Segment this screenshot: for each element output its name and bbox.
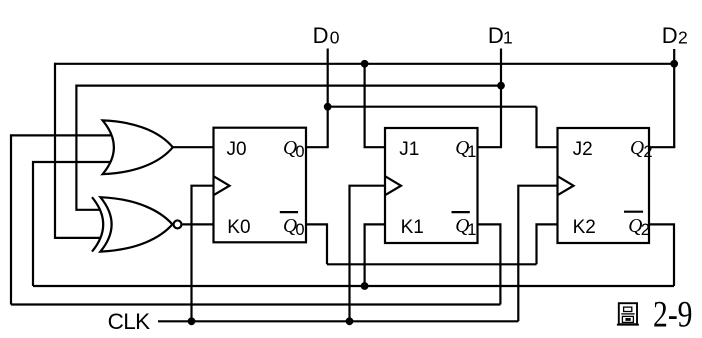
label Q2-bar pin: [624, 212, 650, 239]
label Q1 pin: [455, 138, 476, 161]
wire CLK horizontal: [158, 320, 518, 322]
svg-text:K2: K2: [573, 217, 596, 238]
flip-flop U1 box: [385, 128, 478, 243]
wire CLK to FF2 clock: [518, 186, 557, 322]
junction dot W5/K1: [361, 282, 369, 290]
wire Q1 pin to D1 node: [478, 146, 503, 148]
svg-text:J2: J2: [573, 139, 593, 160]
svg-text:2: 2: [643, 143, 652, 161]
svg-text:D: D: [313, 23, 329, 48]
junction dot CLK/FF1: [346, 317, 354, 325]
svg-text:2: 2: [641, 221, 650, 239]
wire OR gate lower input feed: [33, 162, 114, 286]
label Q0-bar pin: [280, 212, 305, 239]
wire net D1 left drop to XNOR upper input: [76, 85, 101, 210]
svg-text:1: 1: [467, 221, 476, 239]
wire D0 label stub down to Q0: [327, 49, 329, 148]
label Q1-bar pin: [452, 212, 477, 239]
wire K1 feed riser from W5: [365, 224, 385, 286]
wire D1 label stub down to Q1: [500, 49, 502, 148]
junction dot W3/D0: [324, 103, 332, 111]
svg-text:0: 0: [295, 143, 304, 161]
svg-text:0: 0: [330, 28, 340, 48]
label Q2 pin: [630, 138, 653, 161]
svg-text:0: 0: [295, 221, 304, 239]
svg-text:1: 1: [467, 143, 476, 161]
label D0: [313, 23, 340, 48]
junction dot W1/D2: [670, 60, 678, 68]
svg-text:K1: K1: [401, 217, 424, 238]
label Q0 pin: [283, 138, 305, 161]
flip-flop U0 box: [214, 128, 307, 243]
svg-text:2: 2: [678, 28, 688, 48]
svg-text:CLK: CLK: [108, 309, 151, 334]
wire Q0 pin to D0 node: [306, 146, 329, 148]
xnor-gate U5: [92, 197, 181, 251]
label figure caption 圖 glyph: [617, 303, 639, 325]
svg-text:J0: J0: [227, 139, 247, 160]
wire Q-bar-0 to K2 horizontal (W4): [327, 263, 537, 265]
wire net D2 left drop to XNOR lower input: [55, 63, 101, 238]
wire D2 label stub down to Q2: [673, 49, 675, 147]
flip-flop U2 box: [558, 128, 650, 243]
wire J1 feed from W1: [365, 64, 385, 147]
svg-text:1: 1: [503, 28, 513, 48]
wire K2 feed riser: [537, 224, 558, 264]
wire CLK to FF1 clock: [350, 186, 386, 322]
junction dot W2/D1: [497, 82, 505, 90]
junction dot CLK/FF0: [188, 317, 196, 325]
wire net D0 horizontal (W3): [328, 106, 537, 108]
junction dot W1/J1: [361, 60, 369, 68]
svg-text:D: D: [662, 23, 678, 48]
wire Q2 pin to D2 node: [649, 146, 675, 148]
wire CLK to FF0 clock: [192, 186, 214, 322]
wire J2 feed from W3: [537, 107, 558, 148]
or-gate U4: [103, 120, 173, 174]
wire Q-bar-1 return horizontal (W6): [11, 303, 500, 305]
svg-text:K0: K0: [227, 217, 250, 238]
wire Q-bar-2 return horizontal (W5): [33, 285, 674, 287]
svg-text:D: D: [488, 23, 504, 48]
wire net D1 horizontal (W2): [75, 84, 501, 86]
wire Q-bar-1 out and down: [478, 224, 501, 304]
wire Q-bar-0 out to riser: [306, 224, 327, 264]
label D1: [488, 23, 513, 48]
wire net D2 top horizontal (W1): [54, 63, 674, 65]
svg-text:Q: Q: [630, 138, 644, 159]
wire XNOR output to K0: [182, 223, 214, 225]
svg-text:J1: J1: [399, 139, 419, 160]
wire OR gate upper input feed: [11, 135, 114, 304]
wire Q-bar-2 out and down: [649, 224, 674, 286]
label D2: [662, 23, 688, 48]
wire OR output to J0: [172, 146, 214, 148]
svg-text:2-9: 2-9: [653, 295, 693, 336]
